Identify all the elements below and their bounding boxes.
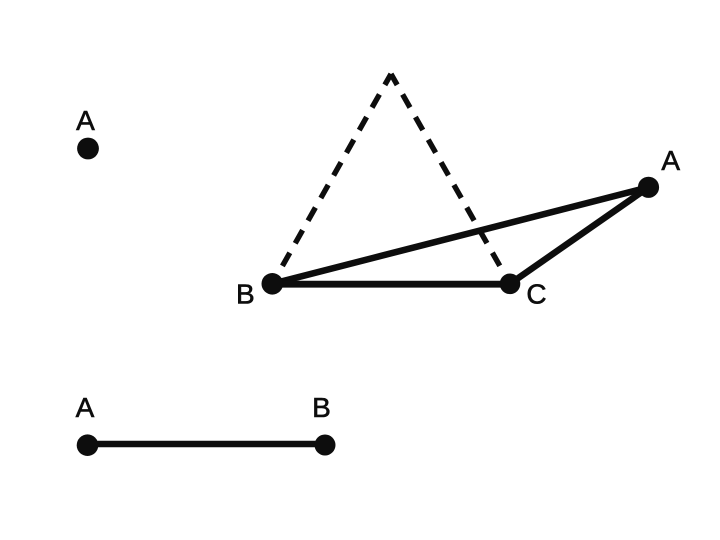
svg-text:A: A bbox=[76, 392, 95, 423]
svg-text:B: B bbox=[312, 392, 331, 423]
point B (triangle vertex dot) bbox=[262, 273, 284, 295]
wire segment B to A (triangle side) bbox=[272, 187, 648, 283]
point A (bottom segment left dot) bbox=[77, 434, 99, 456]
dashed line apex to B bbox=[272, 74, 391, 284]
svg-text:A: A bbox=[76, 105, 95, 136]
point B (bottom segment right dot) bbox=[315, 435, 336, 456]
point C (triangle vertex dot) bbox=[500, 274, 521, 295]
point A (isolated dot, top left) bbox=[77, 138, 99, 160]
dashed line apex to C bbox=[391, 74, 510, 284]
svg-text:C: C bbox=[526, 278, 546, 309]
svg-text:A: A bbox=[661, 145, 680, 176]
point A (triangle vertex dot, right) bbox=[638, 177, 659, 198]
wire segment B to C (triangle side) bbox=[272, 281, 510, 288]
wire segment A to B (bottom segment) bbox=[88, 441, 326, 448]
svg-text:B: B bbox=[236, 279, 255, 310]
wire segment C to A (triangle side) bbox=[510, 187, 649, 283]
